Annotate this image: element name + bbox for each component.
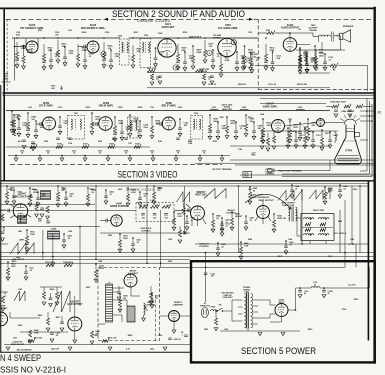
svg-text:T402 YOKE: T402 YOKE xyxy=(313,209,325,212)
svg-text:T30I: T30I xyxy=(150,107,154,109)
component group s2 C211 xyxy=(235,51,246,71)
svg-text:330: 330 xyxy=(69,196,72,198)
svg-text:N 4 SWEEP: N 4 SWEEP xyxy=(0,353,41,363)
component group s4 R403 xyxy=(56,185,66,207)
wire s4 vertical 7 xyxy=(205,253,207,281)
wire s3 video out xyxy=(285,123,317,127)
label speaker xyxy=(343,25,354,28)
component group s3 R305 xyxy=(128,114,139,137)
wire s3 mid long xyxy=(260,130,338,132)
waveform sawtooth sync xyxy=(10,239,34,255)
svg-text:.05: .05 xyxy=(343,188,346,190)
wire s2 plate1 xyxy=(37,38,39,47)
component group s2 R215 xyxy=(313,45,324,69)
svg-text:470: 470 xyxy=(55,33,58,36)
svg-text:.02: .02 xyxy=(246,60,249,62)
power transformer T201 xyxy=(238,293,258,329)
svg-text:R427: R427 xyxy=(56,316,61,319)
component hor col r2 xyxy=(55,287,59,305)
svg-text:R42I: R42I xyxy=(168,260,172,263)
filter choke L-80 xyxy=(311,282,320,288)
svg-text:R228 1M: R228 1M xyxy=(238,84,246,86)
test point T1 xyxy=(173,65,178,70)
svg-text:C425: C425 xyxy=(94,334,99,337)
bottom strip label C435 xyxy=(150,348,154,351)
label 6CB6 3rd IF xyxy=(161,102,176,108)
coil left of crt xyxy=(335,131,336,143)
contrast pot cluster xyxy=(260,130,276,176)
component group s3 R304 xyxy=(113,116,124,141)
resistor R217 4700 horizontal xyxy=(147,67,162,85)
component group s4 R414 xyxy=(94,263,105,282)
coil block width coil xyxy=(48,228,60,240)
wire s4 vertical 5 xyxy=(160,210,162,267)
component group s4 C413 xyxy=(220,221,230,236)
svg-text:1M: 1M xyxy=(91,192,94,194)
wire s3 signal bus xyxy=(6,110,258,112)
hv filament wires xyxy=(113,287,141,296)
svg-text:.047: .047 xyxy=(211,275,214,278)
divider section3/4 xyxy=(1,180,375,182)
svg-text:C206: C206 xyxy=(105,32,110,34)
tube V203 6AL5 ratio det xyxy=(158,39,176,57)
wire filter up right xyxy=(368,267,370,288)
wire s4 vertical 8 xyxy=(301,190,303,244)
coil block L402 xyxy=(18,216,27,224)
component group s3 C308 xyxy=(234,121,245,139)
label 6AU6 1st sound IF xyxy=(20,24,44,30)
component group s2r R220 xyxy=(314,49,325,70)
section4 bottom border xyxy=(0,351,191,353)
component fill C44I at 292,190 xyxy=(290,184,299,198)
component group s4 R402 xyxy=(28,187,38,206)
component fill R2I2 at 250.5,58 xyxy=(249,52,258,70)
label height control xyxy=(226,210,237,214)
svg-text:R2I3: R2I3 xyxy=(266,30,270,32)
svg-text:P400 LIGHT: P400 LIGHT xyxy=(251,194,264,197)
ground stubs s3 bus xyxy=(14,155,224,162)
hv cage res xyxy=(149,286,153,304)
wire s4 vertical 6 xyxy=(237,186,239,253)
component group s3r R316 xyxy=(303,127,312,148)
component group s3 C303 xyxy=(58,116,69,134)
wire hor cathode xyxy=(73,331,77,343)
svg-text:100K: 100K xyxy=(34,332,39,334)
svg-text:L20I: L20I xyxy=(68,30,72,32)
label noise clipper xyxy=(110,203,128,209)
arrow T205 xyxy=(60,86,63,90)
svg-text:.05: .05 xyxy=(136,242,139,244)
svg-text:40: 40 xyxy=(304,292,306,295)
test point M1 xyxy=(101,51,106,56)
component group s3 C305 xyxy=(138,120,149,138)
transformer T301 IF can xyxy=(68,113,85,139)
component fill C442 at 340,190 xyxy=(338,184,347,198)
waveform sawtooth vert defl xyxy=(278,191,302,201)
svg-text:R473 MEG: R473 MEG xyxy=(45,261,55,264)
component fill C445 at 218,248 xyxy=(216,242,225,256)
svg-text:.1: .1 xyxy=(181,334,183,336)
svg-text:CONTROL: CONTROL xyxy=(226,212,237,214)
wire s4 vertical 10 xyxy=(359,186,361,253)
svg-text:560K: 560K xyxy=(197,52,202,54)
svg-text:R307: R307 xyxy=(220,117,225,119)
test point S1 xyxy=(207,50,212,55)
svg-text:R50I: R50I xyxy=(204,329,208,331)
component group s4 C408 xyxy=(244,215,254,230)
svg-text:L30I: L30I xyxy=(28,107,32,109)
label p400 light vert defl xyxy=(251,194,264,200)
svg-text:RATIO DET: RATIO DET xyxy=(162,26,175,29)
svg-text:470: 470 xyxy=(156,78,159,81)
svg-text:.01: .01 xyxy=(225,226,228,228)
resistor R218 tone xyxy=(196,68,214,85)
resistor R47B 150K xyxy=(182,203,192,215)
tube V401 6SN7 sync disc xyxy=(10,204,31,223)
wire crt anode xyxy=(360,139,368,141)
component line interlock plug xyxy=(200,302,211,317)
svg-text:2.2M: 2.2M xyxy=(244,245,249,247)
svg-text:.05: .05 xyxy=(190,220,193,222)
svg-text:SW: SW xyxy=(219,304,222,306)
component group s3r C313 xyxy=(311,131,320,148)
wire CRT lead crossbars xyxy=(360,110,374,122)
svg-text:12K: 12K xyxy=(249,121,253,123)
svg-text:.05: .05 xyxy=(151,153,154,155)
component group s4 C412 xyxy=(150,293,160,308)
component group s3 R301 xyxy=(10,110,21,133)
wire b+ stub xyxy=(297,44,310,46)
tube V403 6SN7 vert osc xyxy=(191,206,205,220)
label ac interlock note xyxy=(221,293,234,299)
svg-text:L4607: L4607 xyxy=(116,203,123,206)
svg-text:470K: 470K xyxy=(328,189,333,192)
svg-text:VIDEO TEST TERMINAL: VIDEO TEST TERMINAL xyxy=(278,170,302,173)
component group s3 R312 xyxy=(306,118,317,141)
title SECTION 2 SOUND IF AND AUDIO xyxy=(112,9,245,20)
svg-text:R434 MEG: R434 MEG xyxy=(63,261,73,264)
wire s2 out long1 xyxy=(255,65,330,67)
svg-text:C3I8: C3I8 xyxy=(188,143,192,145)
component group s2 C206 xyxy=(109,49,120,69)
wire s4 vertical 0 xyxy=(79,227,81,307)
tube V202 6AU6 2nd sound IF xyxy=(87,41,99,53)
svg-text:C40I: C40I xyxy=(8,188,12,191)
component group s4 R405 xyxy=(126,187,136,206)
svg-text:SSIS NO V-2216-I: SSIS NO V-2216-I xyxy=(0,364,66,374)
wire b+ down xyxy=(295,310,297,331)
waveform sawtooth vert defl2 xyxy=(309,190,330,199)
svg-text:L420 I7P: L420 I7P xyxy=(51,348,60,351)
svg-text:.05: .05 xyxy=(29,270,32,272)
wire s3 lower mid xyxy=(230,145,330,147)
component group s3 C310 xyxy=(298,122,309,140)
component group s3 C307 xyxy=(216,121,227,139)
component group s4 C402 xyxy=(36,191,46,206)
label 6AU6 2nd sound IF xyxy=(81,24,106,30)
wire s4 mid bus xyxy=(100,232,190,234)
component group s4 C401 xyxy=(12,189,22,204)
wire s2 left col xyxy=(14,38,16,81)
svg-text:CONTROL: CONTROL xyxy=(199,246,210,248)
svg-text:LINE OUTPUT: LINE OUTPUT xyxy=(12,259,25,261)
resistor s3 agc row 3 xyxy=(108,144,115,149)
svg-text:C4I9: C4I9 xyxy=(218,260,222,263)
component group s2 C204 xyxy=(63,46,74,66)
svg-text:R402: R402 xyxy=(32,188,37,191)
component hor col c1 xyxy=(49,293,53,307)
wire rect heater xyxy=(270,317,282,323)
svg-text:AMPL: AMPL xyxy=(19,239,25,242)
title SECTION 4 SWEEP (cut) xyxy=(0,353,41,363)
cap C-423 above plug xyxy=(204,273,215,278)
bottom strip resistor R472 xyxy=(102,337,117,343)
peaking coil L302 xyxy=(240,107,248,111)
component group s2 R209 xyxy=(191,45,202,69)
svg-text:2ND IF AMPL: 2ND IF AMPL xyxy=(99,105,114,108)
wire grid tube1 xyxy=(25,46,27,49)
peaking coil L301 xyxy=(210,107,218,111)
label vid test terminal s3 xyxy=(212,168,233,171)
svg-text:.1: .1 xyxy=(4,295,6,297)
wire s3 diode to crt xyxy=(325,122,345,124)
svg-text:R32I: R32I xyxy=(158,141,162,143)
svg-text:R3I9: R3I9 xyxy=(98,141,102,143)
wire s2 out mid xyxy=(296,49,345,51)
tube V408 hor osc cut at edge xyxy=(0,306,8,327)
wire s4 vertical 3 xyxy=(95,186,97,259)
svg-text:TRANS T204: TRANS T204 xyxy=(282,204,295,207)
border top xyxy=(0,7,376,9)
svg-text:C4B: C4B xyxy=(4,73,9,76)
component group s4 C403 xyxy=(64,191,74,206)
component group s3 C302 xyxy=(34,120,45,138)
svg-text:R3I8: R3I8 xyxy=(44,141,48,143)
wire hor osc h xyxy=(40,286,62,288)
test point A1 xyxy=(231,40,236,45)
tube V407 damper xyxy=(169,311,180,322)
svg-text:.05: .05 xyxy=(17,194,20,196)
svg-text:.05: .05 xyxy=(143,196,146,198)
svg-text:C405: C405 xyxy=(118,188,123,191)
component group s4 C407 xyxy=(220,217,230,232)
svg-text:C439 .05: C439 .05 xyxy=(173,338,180,341)
label T205 below s2 xyxy=(51,86,56,90)
label L420 bottom xyxy=(51,348,60,351)
svg-text:KINE SOCKET: KINE SOCKET xyxy=(342,111,356,113)
tube V201 6AU6 1st sound IF xyxy=(26,41,38,53)
wire s3 bottom right 1 xyxy=(272,170,330,172)
svg-text:.005: .005 xyxy=(141,218,145,220)
component left margin cap xyxy=(1,73,11,83)
component group s3 R309 xyxy=(244,114,255,137)
title SECTION 3 VIDEO xyxy=(118,169,178,179)
wire hor out to flyback xyxy=(98,323,106,325)
svg-text:V-22I6 ONLY: V-22I6 ONLY xyxy=(222,297,233,299)
svg-text:SECTION 3 VIDEO: SECTION 3 VIDEO xyxy=(118,169,178,179)
component group s2 R203 xyxy=(56,37,67,63)
svg-text:DRIVE ADJUST: DRIVE ADJUST xyxy=(11,343,25,346)
wire s4 top bus xyxy=(0,185,368,187)
component group s2 R201 xyxy=(22,45,33,69)
svg-text:C435: C435 xyxy=(150,348,154,351)
label 6AL5 ratio det xyxy=(162,23,175,29)
wire s3 mid bus xyxy=(6,146,150,148)
subtitle chassis v-2212-2 xyxy=(126,188,154,192)
ion trap magnet xyxy=(355,133,360,137)
label 6AQ5 audio output xyxy=(281,24,300,30)
svg-text:VIDEO DET: VIDEO DET xyxy=(222,109,233,111)
svg-text:SECTION 2 SOUND IF AND AUDIO: SECTION 2 SOUND IF AND AUDIO xyxy=(112,9,245,20)
sync cluster parts xyxy=(35,202,51,225)
tube V301 6CB6 1st IF xyxy=(43,117,56,130)
transformer T204 vert output xyxy=(281,202,297,221)
svg-text:1M: 1M xyxy=(216,218,219,220)
svg-text:R328: R328 xyxy=(109,144,114,146)
component group s4 C404 xyxy=(104,189,115,204)
svg-text:R320 R321 R322: R320 R321 R322 xyxy=(330,102,346,104)
svg-text:R327: R327 xyxy=(83,144,88,146)
component filter cap C-190 xyxy=(298,288,308,298)
wire CRT lead bottoms xyxy=(282,171,372,177)
component group s3r C312 xyxy=(294,131,303,148)
svg-text:L4I0: L4I0 xyxy=(13,337,17,340)
hor drive cap xyxy=(60,316,64,331)
svg-text:I7TP4: I7TP4 xyxy=(345,150,352,153)
component group s2 R210 xyxy=(203,37,214,63)
svg-text:C312: C312 xyxy=(299,135,304,137)
label hold control xyxy=(141,228,152,232)
svg-text:T202: T202 xyxy=(118,36,122,38)
svg-text:R502: R502 xyxy=(308,329,313,331)
label b plus xyxy=(348,285,356,287)
wire s3 ground bus xyxy=(8,155,230,157)
svg-text:8200: 8200 xyxy=(11,266,15,268)
wire transformer bottom bus xyxy=(220,329,300,336)
svg-text:2ND SOUND IF AMPL: 2ND SOUND IF AMPL xyxy=(81,27,106,30)
speaker xyxy=(339,30,350,42)
svg-text:CONTROL: CONTROL xyxy=(266,174,276,176)
svg-text:C502: C502 xyxy=(342,309,347,311)
svg-text:SAL 4 (CHASSIS): SAL 4 (CHASSIS) xyxy=(17,348,32,351)
ground row s4 bottom xyxy=(6,347,167,350)
svg-text:C426: C426 xyxy=(158,334,163,337)
transformer T303 IF can mid xyxy=(128,117,139,138)
svg-text:.05: .05 xyxy=(125,153,128,155)
wire crt top right 2 xyxy=(260,103,326,105)
wire s4 vertical 11 xyxy=(184,186,186,233)
junction filter left xyxy=(299,287,301,289)
resistor s3 agc row 2 xyxy=(82,144,89,149)
component group s3 C301 xyxy=(17,118,28,136)
svg-text:C420: C420 xyxy=(328,255,333,258)
wire hor area 2 xyxy=(20,331,68,333)
waveform sawtooth vert osc in xyxy=(177,192,190,202)
component group s2 C205 xyxy=(83,49,94,69)
wire s2 fb loop xyxy=(330,63,368,91)
svg-text:R4I2: R4I2 xyxy=(108,234,112,237)
resistor s3 agc row 4 xyxy=(134,144,141,149)
svg-text:VERT OUTPUT: VERT OUTPUT xyxy=(258,200,274,202)
svg-text:R426: R426 xyxy=(38,314,43,317)
svg-text:C306: C306 xyxy=(178,107,183,109)
series cap C201 input xyxy=(14,45,26,49)
svg-text:C219 .02: C219 .02 xyxy=(268,84,277,86)
flyback transformer T403 primary xyxy=(106,282,113,323)
svg-text:R3II: R3II xyxy=(288,119,292,121)
svg-text:NOISE CLIPPER: NOISE CLIPPER xyxy=(110,206,128,208)
label damper xyxy=(173,302,183,307)
delay line dashed box xyxy=(136,199,174,221)
wire s4 long1 xyxy=(0,252,374,254)
wire s4 long5 xyxy=(160,266,345,268)
svg-text:C403: C403 xyxy=(62,188,67,191)
label 6AT6 1st audio xyxy=(218,24,239,30)
resistor ladder CRT network xyxy=(326,102,372,118)
component group s3 R302 xyxy=(26,112,37,137)
label T203 output trans xyxy=(309,25,319,32)
svg-text:R207: R207 xyxy=(134,32,139,34)
subtitle chassis v-2215-2 xyxy=(137,19,170,23)
video test terminal xyxy=(267,168,302,173)
vert osc tube pins xyxy=(186,204,206,226)
CRT socket pins xyxy=(340,114,360,121)
svg-text:I500: I500 xyxy=(16,34,20,36)
wire s3 lower long xyxy=(230,159,374,161)
wire audio plate to trans xyxy=(258,30,318,37)
label 6CB6 2nd IF xyxy=(99,102,114,108)
svg-text:SPEAKER: SPEAKER xyxy=(343,25,354,28)
component group s4 R408 xyxy=(211,213,221,232)
component fuse xyxy=(211,307,217,311)
border left xyxy=(3,8,5,181)
component group s4 R409 xyxy=(230,211,243,230)
label 5U4G xyxy=(279,299,285,305)
svg-text:CONTROL: CONTROL xyxy=(212,37,222,39)
svg-text:C4I2: C4I2 xyxy=(168,238,172,241)
label sal4 chassis xyxy=(17,348,32,351)
label vert osc xyxy=(195,192,207,197)
tube V406 1B3 HV rect xyxy=(124,274,137,287)
label hor drive adjust xyxy=(11,341,25,346)
wire s2 out long2 xyxy=(300,72,330,74)
svg-text:R329: R329 xyxy=(135,144,140,146)
power box frame xyxy=(191,261,375,362)
component fill R446 at 241,247 xyxy=(239,241,249,259)
svg-text:1M: 1M xyxy=(123,298,126,300)
tube V304 12AU7 video ampl xyxy=(272,120,285,133)
annotation labels scatter xyxy=(8,29,358,337)
component group s2r C216 xyxy=(323,53,334,70)
svg-text:TRANS: TRANS xyxy=(309,29,317,32)
svg-text:.05: .05 xyxy=(289,244,292,246)
bottom strip cap C439 xyxy=(168,338,180,341)
svg-text:B+ 275V: B+ 275V xyxy=(348,285,356,287)
dashed boundary audio vertical xyxy=(257,19,259,89)
svg-text:R428: R428 xyxy=(128,334,133,337)
wire transformer to rect 2 xyxy=(258,314,276,318)
component group s3 C309 xyxy=(252,121,263,139)
svg-text:INTERLOCK: INTERLOCK xyxy=(200,305,211,307)
wire s4 long3 xyxy=(0,258,190,260)
svg-text:470K: 470K xyxy=(27,51,32,54)
component group s2 C203 xyxy=(49,49,60,69)
svg-text:RECT: RECT xyxy=(279,302,285,304)
component group s3r R315 xyxy=(286,127,295,148)
wire s2 grid1 xyxy=(25,38,27,44)
component group s2 R211 xyxy=(219,53,230,77)
dashed tuner boundary xyxy=(6,19,8,92)
